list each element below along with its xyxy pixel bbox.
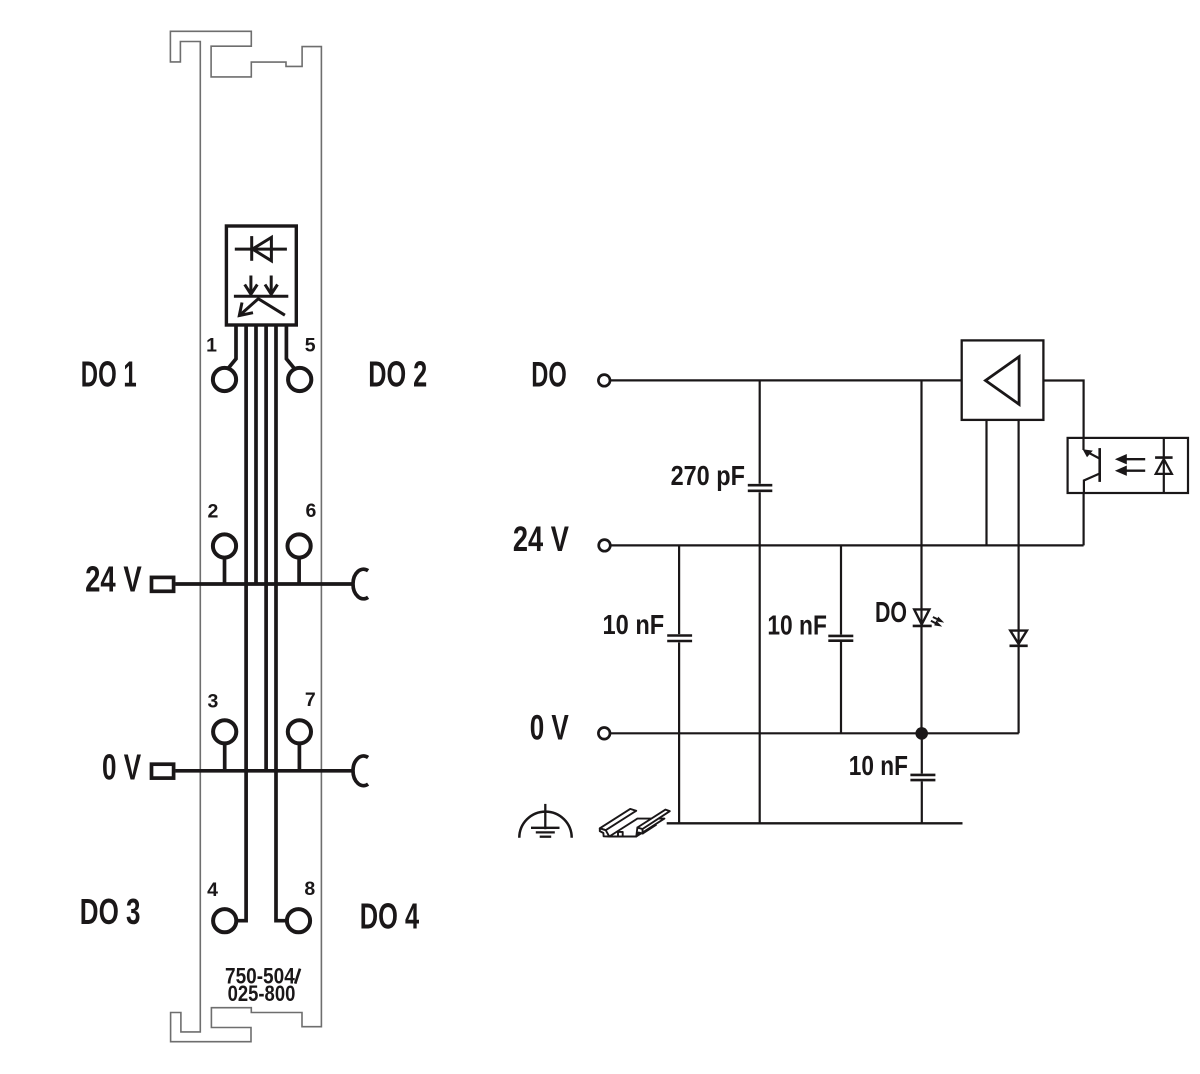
node DO terminal circle [598,375,610,387]
LED DO symbol [913,609,932,626]
wire amp output to optocoupler [1043,381,1083,438]
stem terminal 6 to 24V rail [297,557,301,584]
optocoupler LED diode [1155,438,1173,493]
svg-text:4: 4 [207,879,218,901]
svg-text:DO: DO [531,356,567,395]
0V socket arc connector [353,756,368,786]
part number label 750-504/025-800 [225,964,300,1006]
svg-text:10 nF: 10 nF [603,609,665,640]
optocoupler phototransistor Q1 [1083,438,1100,493]
DIN rail symbol (carrier rail) [600,809,670,837]
svg-text:24 V: 24 V [513,520,570,559]
terminal 3 [213,720,236,743]
terminal 4 [213,909,236,932]
internal electronics box U1 (module pictogram box) [226,226,296,325]
module outline 750-504 (left figure contour) [170,31,321,1041]
DO rail wire [610,379,961,381]
svg-text:8: 8 [304,878,315,900]
earth symbol [519,804,571,838]
svg-text:025-800: 025-800 [228,981,296,1006]
wire 4 (box to 0V rail) [264,326,268,771]
capacitor C1 270 pF (DO to ground) [748,380,773,823]
wire amp box through diode to 0V rail [1017,420,1019,733]
svg-text:DO 3: DO 3 [80,891,141,932]
0V rail wire (module) [175,769,354,773]
24V rail wire [611,544,1084,546]
svg-text:270 pF: 270 pF [671,460,745,491]
wire 5 (box to terminal 8) [276,326,286,921]
terminal 2 [213,534,236,557]
junction dot (0V node) [915,727,928,740]
wire optocoupler emitter to 24V rail [1082,493,1084,545]
wire 1 (box to terminal 1) [227,326,236,370]
wire amp box to 24V rail [985,420,987,546]
24V socket arc connector [353,569,368,599]
wire 6 (box to terminal 5) [286,326,295,370]
node 0V terminal circle [598,728,610,740]
svg-text:DO 2: DO 2 [368,353,427,394]
svg-text:10 nF: 10 nF [849,750,908,781]
capacitor C2 10 nF (24V to ground) [667,545,692,823]
optocoupler box U3 [1068,438,1188,493]
svg-text:2: 2 [207,500,218,522]
terminal 1 [213,368,236,391]
svg-text:7: 7 [305,689,316,711]
svg-text:0 V: 0 V [102,747,141,788]
LED light emission arrows [931,617,944,627]
svg-text:6: 6 [305,500,316,522]
24V plug square connector [152,577,174,591]
svg-text:3: 3 [207,690,218,712]
svg-text:1: 1 [206,335,217,357]
svg-text:10 nF: 10 nF [767,609,827,640]
svg-text:5: 5 [305,335,316,357]
driver op-amp box U2 [962,340,1044,420]
node 24V terminal circle [599,540,611,552]
freewheeling diode D1 [1010,631,1028,646]
terminal 5 [288,368,311,391]
wire 2 (box to terminal 4) [238,326,247,921]
terminal 7 [288,720,311,743]
output arrows symbol inside box [234,276,288,316]
svg-text:24 V: 24 V [85,558,142,599]
0V rail wire [610,732,1018,734]
stem terminal 2 to 24V rail [223,557,227,584]
capacitor C3 10 nF (24V to 0V) [828,545,853,733]
0V plug square connector [152,764,174,778]
svg-text:0 V: 0 V [530,709,570,748]
wire 3 (box to 24V rail) [254,326,258,584]
24V rail wire (module) [175,582,354,586]
LED indicator wire (DO rail to 0V rail) [920,380,922,733]
ground rail wire [667,822,963,824]
svg-text:DO 1: DO 1 [81,353,137,394]
optocoupler light arrows [1115,454,1145,476]
terminal 6 [288,534,311,557]
svg-text:DO 4: DO 4 [360,895,419,936]
terminal 8 [287,909,310,932]
capacitor C4 10 nF (0V to ground) [910,733,935,823]
stem terminal 7 to 0V rail [298,743,302,771]
suppressor diode symbol inside box [235,236,287,261]
svg-text:DO: DO [875,597,907,629]
stem terminal 3 to 0V rail [223,743,227,771]
